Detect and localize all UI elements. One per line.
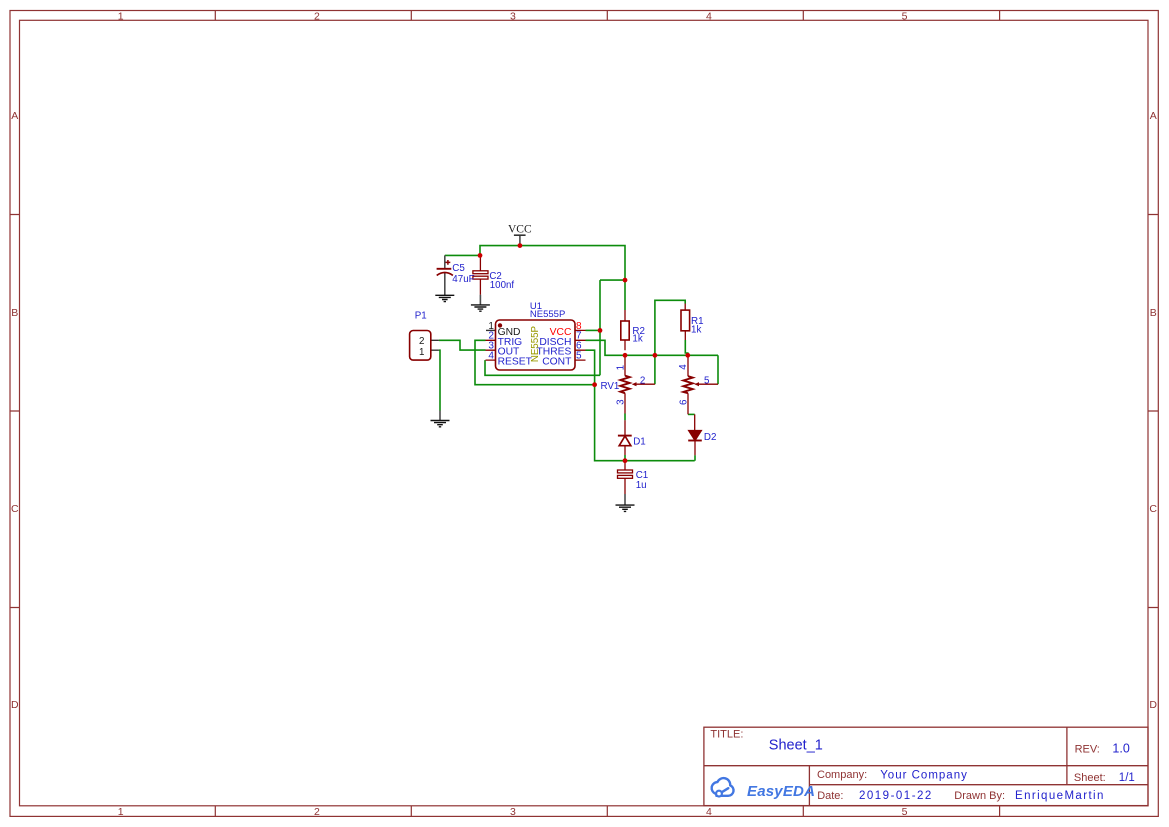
svg-text:REV:: REV: xyxy=(1075,744,1100,756)
svg-text:Drawn By:: Drawn By: xyxy=(954,790,1005,802)
svg-text:NE555P: NE555P xyxy=(530,309,565,320)
svg-text:2: 2 xyxy=(314,11,320,23)
svg-text:1: 1 xyxy=(118,11,124,23)
svg-text:D2: D2 xyxy=(704,432,717,443)
svg-text:3: 3 xyxy=(616,399,627,405)
svg-text:EasyEDA: EasyEDA xyxy=(747,783,815,800)
svg-text:5: 5 xyxy=(704,376,710,387)
svg-text:C: C xyxy=(1149,503,1157,515)
svg-text:1k: 1k xyxy=(632,333,642,344)
svg-text:1: 1 xyxy=(419,347,424,358)
svg-text:5: 5 xyxy=(902,11,908,23)
svg-text:1k: 1k xyxy=(691,325,701,336)
svg-text:100nf: 100nf xyxy=(490,280,515,291)
svg-text:2: 2 xyxy=(314,806,320,818)
svg-text:B: B xyxy=(1150,307,1157,319)
svg-text:P1: P1 xyxy=(415,311,427,322)
svg-text:3: 3 xyxy=(510,11,516,23)
svg-text:4: 4 xyxy=(488,351,494,362)
svg-text:1: 1 xyxy=(616,365,627,370)
svg-text:1.0: 1.0 xyxy=(1112,742,1129,756)
svg-text:1/1: 1/1 xyxy=(1119,772,1135,784)
svg-text:4: 4 xyxy=(678,364,689,370)
svg-text:Sheet_1: Sheet_1 xyxy=(769,737,823,753)
svg-text:D1: D1 xyxy=(633,436,646,447)
svg-text:47uF: 47uF xyxy=(452,274,474,285)
svg-text:A: A xyxy=(11,110,18,122)
svg-text:1u: 1u xyxy=(636,480,647,491)
svg-text:2: 2 xyxy=(419,336,424,347)
svg-text:CONT: CONT xyxy=(542,357,572,368)
svg-text:C5: C5 xyxy=(452,263,465,274)
svg-text:Your Company: Your Company xyxy=(880,769,968,781)
svg-text:C: C xyxy=(11,503,19,515)
svg-text:D: D xyxy=(11,699,19,711)
svg-text:6: 6 xyxy=(679,399,690,405)
svg-text:Company:: Company: xyxy=(817,769,867,781)
svg-text:D: D xyxy=(1149,699,1157,711)
svg-text:1: 1 xyxy=(118,806,124,818)
svg-text:A: A xyxy=(1150,110,1157,122)
svg-text:RV1: RV1 xyxy=(601,381,620,392)
svg-text:2: 2 xyxy=(640,375,645,386)
svg-text:2019-01-22: 2019-01-22 xyxy=(859,790,933,802)
svg-text:3: 3 xyxy=(510,806,516,818)
svg-text:5: 5 xyxy=(576,351,582,362)
svg-text:5: 5 xyxy=(902,806,908,818)
svg-text:VCC: VCC xyxy=(508,224,532,236)
svg-text:B: B xyxy=(11,307,18,319)
svg-text:EnriqueMartin: EnriqueMartin xyxy=(1015,790,1105,802)
svg-text:Sheet:: Sheet: xyxy=(1074,772,1106,784)
svg-text:TITLE:: TITLE: xyxy=(710,728,743,740)
svg-text:NE555P: NE555P xyxy=(530,326,541,362)
svg-text:Date:: Date: xyxy=(817,790,843,802)
svg-text:RESET: RESET xyxy=(498,357,533,368)
svg-text:4: 4 xyxy=(706,806,712,818)
svg-text:4: 4 xyxy=(706,11,712,23)
